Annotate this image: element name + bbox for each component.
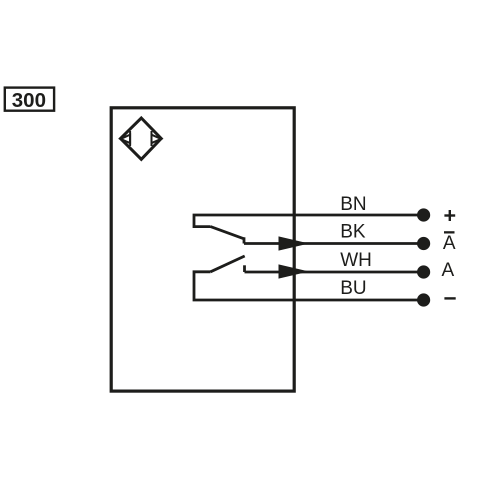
sensor symbol right triangle [152, 135, 162, 143]
terminal dot BK [417, 237, 430, 250]
switch S1 contact tick [243, 237, 246, 243]
wire BU (-) with branch to switch pivot [194, 272, 424, 300]
sensor symbol left chord [129, 131, 131, 146]
svg-text:BN: BN [340, 194, 366, 215]
arrow on WH wire [279, 264, 310, 278]
arrow on BK wire [279, 236, 310, 250]
svg-text:A: A [441, 260, 454, 281]
svg-text:A: A [443, 233, 456, 254]
terminal label A-bar overline [444, 231, 455, 233]
wire BN (+) with branch to switch pivot [194, 215, 424, 227]
svg-text:WH: WH [340, 250, 372, 271]
switch S1 arm (closed) [211, 227, 245, 239]
figure number frame 300 [5, 88, 54, 111]
sensor body outline [111, 108, 294, 391]
svg-text:300: 300 [12, 89, 46, 112]
wire WH (A output) [245, 271, 424, 274]
terminal label minus [444, 297, 455, 299]
switch S2 arm (open) [211, 256, 245, 272]
sensor symbol left triangle [121, 135, 131, 143]
sensor symbol diamond [121, 118, 162, 159]
terminal dot BN [417, 208, 430, 221]
svg-text:BU: BU [340, 278, 366, 299]
terminal label + [444, 210, 455, 221]
terminal dot WH [417, 265, 430, 278]
terminal dot BU [417, 293, 430, 306]
svg-text:BK: BK [340, 221, 366, 242]
sensor symbol right chord [151, 131, 153, 146]
switch S2 contact tick [243, 265, 246, 272]
wire BK (A-bar output) [244, 242, 424, 245]
